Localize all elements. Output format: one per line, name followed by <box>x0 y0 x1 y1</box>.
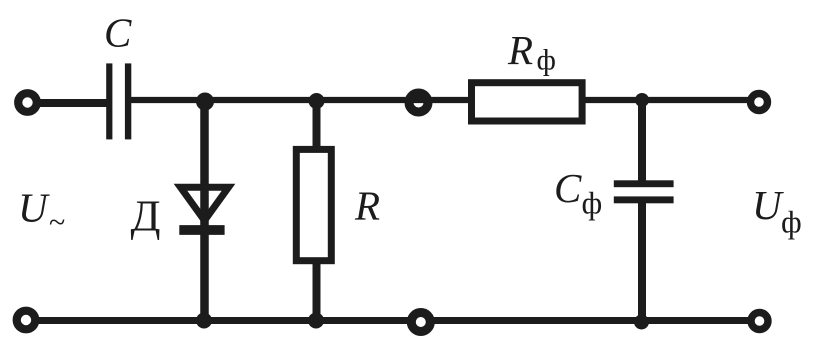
terminal output top <box>751 94 768 111</box>
capacitor Cf plates <box>614 180 674 187</box>
wire diode branch <box>200 98 209 321</box>
node diode top <box>196 93 214 111</box>
diode D cathode bar <box>179 225 224 235</box>
node resistor top <box>309 93 325 109</box>
svg-text:C: C <box>104 10 132 56</box>
svg-text:ф: ф <box>781 204 802 240</box>
wire resistor R branch top <box>313 98 321 152</box>
svg-text:U: U <box>18 184 50 230</box>
resistor R body <box>296 149 331 260</box>
terminal input bottom <box>17 311 36 330</box>
terminal mid top (under rail) <box>409 93 428 112</box>
wire top rail left <box>130 97 470 103</box>
svg-text:C: C <box>554 165 582 211</box>
terminal mid bottom <box>411 313 430 332</box>
terminal input top <box>18 93 37 112</box>
svg-text:Д: Д <box>131 192 161 241</box>
wire resistor R branch bottom <box>313 260 321 321</box>
svg-text:R: R <box>354 183 380 229</box>
svg-text:ф: ф <box>582 185 603 221</box>
svg-text:ф: ф <box>537 44 556 77</box>
node diode bottom <box>196 313 212 329</box>
wire top rail right <box>584 97 750 103</box>
wire Cf branch bottom <box>638 201 646 322</box>
svg-text:U: U <box>752 182 784 228</box>
wire bottom rail <box>33 317 751 324</box>
node Cf top <box>635 93 649 107</box>
node Cf bottom <box>634 315 649 330</box>
diode D triangle <box>181 187 229 220</box>
wire Cf branch top <box>638 97 646 183</box>
svg-text:~: ~ <box>49 206 65 239</box>
capacitor C plates <box>106 63 112 139</box>
svg-text:R: R <box>507 27 533 73</box>
resistor Rf body <box>472 83 583 121</box>
terminal output bottom <box>751 313 768 330</box>
wire input stub <box>34 99 107 107</box>
node resistor bottom <box>308 313 324 329</box>
